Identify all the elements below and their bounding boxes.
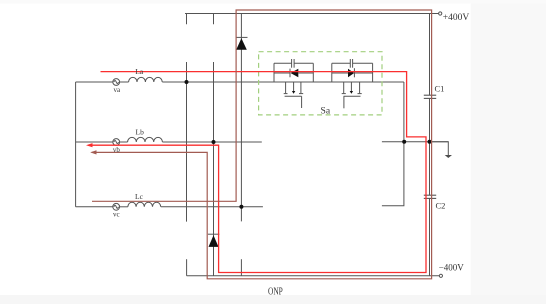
wire phase a main (162, 81, 404, 83)
junction node phase b (212, 140, 216, 144)
diode D2 (cell2, pointing right) (332, 68, 373, 77)
terminal +400V (439, 12, 442, 15)
wire neutral node line (382, 141, 448, 143)
inductor La (129, 77, 163, 82)
capacitor cell1 (292, 59, 295, 68)
wire phase b main (162, 141, 261, 143)
svg-text:vb: vb (113, 146, 121, 154)
svg-text:Sa: Sa (321, 107, 331, 117)
diode DT1 (top, on leg3) (236, 37, 248, 49)
wire phase b left (76, 141, 113, 143)
wire phase a va to La (120, 81, 129, 83)
svg-text:Lb: Lb (136, 128, 145, 137)
wire phase c vc to Lc (120, 206, 128, 208)
junction node phase a (185, 80, 189, 84)
voltage source vb (113, 139, 120, 146)
svg-text:−400V: −400V (439, 263, 465, 273)
arrowhead ia (86, 143, 93, 147)
svg-text:C2: C2 (436, 201, 446, 211)
MOSFET Q2 (cell2) (342, 82, 362, 108)
MOSFET Q1 (cell1) (284, 82, 304, 108)
wire phase c main (161, 206, 263, 208)
cell 2 frame (332, 63, 373, 82)
right gray band (471, 0, 546, 304)
inductor Lb (128, 137, 163, 142)
wire top DC rail +400V (185, 13, 439, 15)
voltage source vc (113, 203, 120, 210)
wire top stub leg1 (186, 14, 188, 25)
switch box Sa (green dashed) (259, 52, 382, 115)
terminal -400V (439, 274, 442, 277)
wire capacitor bus upper (429, 14, 431, 96)
wire phase a down to neutral (382, 82, 404, 206)
wire phase c left (76, 206, 113, 208)
wire phase b vb to Lb (120, 141, 128, 143)
junction node neutral-left (402, 140, 406, 144)
svg-text:vc: vc (113, 210, 120, 218)
wire capacitor bus lower (429, 198, 431, 275)
wire leg1 vertical (186, 62, 188, 222)
svg-text:ONP: ONP (268, 287, 283, 298)
capacitor C1 (424, 95, 436, 98)
wire bottom DC rail -400V / ONP (187, 275, 440, 277)
junction node neutral-bus (428, 140, 432, 144)
wire left source bus (75, 82, 77, 207)
ground (430, 142, 453, 158)
svg-text:+400V: +400V (443, 13, 470, 23)
inductor Lc (128, 202, 161, 207)
cell 1 frame (274, 63, 313, 82)
current path ic (dark red) (92, 10, 432, 279)
svg-text:va: va (114, 86, 122, 94)
svg-text:Lc: Lc (135, 192, 144, 201)
wire bottom stub leg1 (186, 259, 188, 276)
diode DT4 (bottom, on leg2) (208, 234, 220, 247)
wire top stub leg2 (213, 14, 215, 25)
voltage source va (113, 79, 120, 86)
capacitor cell2 (350, 59, 352, 68)
junction node phase c (239, 205, 243, 209)
current path ia (bright red) (88, 72, 426, 273)
wire leg2 vertical (213, 62, 215, 276)
bottom gray band (0, 295, 546, 304)
arrowhead ic (90, 150, 96, 154)
wire leg3 vertical (240, 14, 242, 222)
svg-text:La: La (135, 67, 144, 76)
diode D1 (cell1, pointing left) (274, 69, 313, 78)
wire capacitor bus middle (429, 98, 431, 195)
capacitor C2 (424, 195, 436, 198)
wire phase a left (76, 81, 113, 83)
wire bottom stub leg3 (240, 259, 242, 276)
svg-text:C1: C1 (435, 84, 445, 94)
